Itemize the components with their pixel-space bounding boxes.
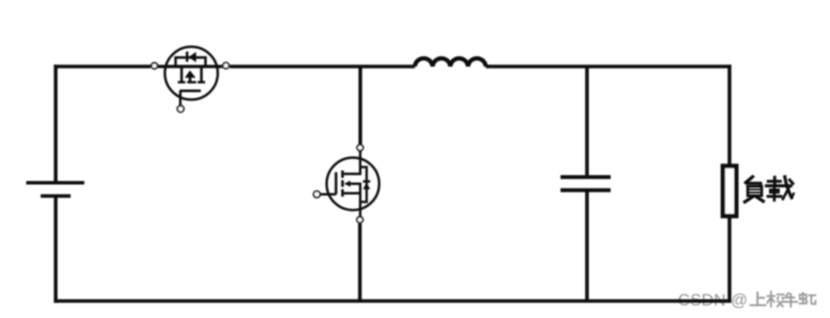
battery BT1 negative plate (short) <box>41 194 71 198</box>
Q1 channel contact stub right <box>200 67 203 81</box>
inductor L1 <box>415 58 486 66</box>
wire: top rail left segment (from top-left corner to Q1 left terminal) <box>54 65 151 69</box>
watermark char 上 <box>750 292 767 306</box>
watermark char 牛 <box>783 293 799 308</box>
wire: top rail segment from inductor to top-right corner <box>486 65 732 69</box>
wire: capacitor branch upper (top rail junction down to C1) <box>585 67 589 178</box>
Q2 channel segment top <box>341 171 344 178</box>
capacitor C1 bottom plate <box>561 188 611 192</box>
Q2 drain lead and drain contact line <box>344 151 361 174</box>
Q2 body-diode anode triangle (points up) <box>363 183 370 190</box>
capacitor C1 top plate <box>561 175 611 179</box>
Q1 channel segment right <box>198 81 206 83</box>
label 负载 char 负 <box>745 177 763 202</box>
Q2 channel segment middle <box>341 180 344 187</box>
wire: right rail lower (load to bottom-right corner) <box>728 216 732 303</box>
wire: left rail upper (top-left corner to battery + plate) <box>54 65 58 183</box>
mosfet Q2 (low-side N-MOSFET) <box>314 145 380 223</box>
Q2 source contact line <box>344 192 361 195</box>
watermark char 虻 <box>799 292 817 304</box>
Q1 gate lead <box>179 91 182 105</box>
Q1 body-diode loop wire <box>176 58 206 68</box>
Q1 drain-source through wire <box>158 65 222 68</box>
watermark CSDN @上校牛虻 <box>678 292 748 310</box>
mosfet Q1 (high-side P-MOSFET) <box>151 47 229 112</box>
Q1 body arrow (points up) <box>185 70 196 77</box>
Q1 body circle <box>165 47 218 100</box>
Q1 channel contact stub left <box>180 67 183 81</box>
Q1 channel segment middle <box>187 81 196 83</box>
wire: left rail lower (battery - plate to bottom-left corner) <box>54 196 58 303</box>
Q2 body circle <box>327 158 380 211</box>
Q1 body arrow stem <box>189 77 192 81</box>
wire: top rail segment from Q1 right terminal to inductor <box>230 65 415 69</box>
Q1 gate bar <box>180 90 201 93</box>
Q2 body-diode cathode bar <box>363 180 370 182</box>
Q2 source terminal pin (open circle, bottom) <box>357 217 363 223</box>
Q2 body-diode loop wire <box>360 167 366 202</box>
wire: right rail upper (top-right corner to load) <box>728 65 732 167</box>
Q2 body arrow line and source lead down <box>350 184 361 217</box>
Q2 gate bar <box>335 172 338 194</box>
watermark char 校 <box>767 291 785 308</box>
Q2 gate terminal pin (open circle) <box>314 191 320 197</box>
wire: Q2 source terminal down to bottom rail <box>358 224 362 301</box>
Q1 body-diode cathode bar <box>186 52 189 62</box>
label 负载 char 载 <box>766 177 793 200</box>
Q2 drain terminal pin (open circle, top) <box>357 145 363 151</box>
battery BT1 positive plate (long) <box>26 181 84 185</box>
wire: capacitor branch lower (C1 down to bottom rail) <box>585 190 589 301</box>
Q1 right terminal pin (open circle) <box>223 63 229 69</box>
Q2 channel segment bottom <box>341 189 344 196</box>
Q1 channel segment left <box>178 81 186 83</box>
Q2 gate lead <box>320 193 336 196</box>
load resistor (rectangle) <box>723 166 736 216</box>
wire: switch-node branch from top rail down to Q2 drain terminal <box>358 67 362 145</box>
wire: bottom rail <box>54 299 731 303</box>
Q1 left terminal pin (open circle) <box>151 63 157 69</box>
Q1 gate terminal pin (open circle) <box>177 106 183 112</box>
Q1 body-diode anode triangle (points left) <box>189 52 197 62</box>
Q2 body arrow (points left) <box>344 181 350 187</box>
